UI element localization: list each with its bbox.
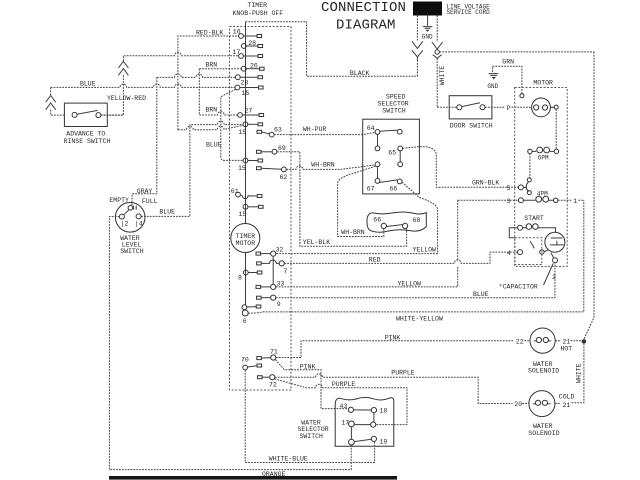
- svg-text:72: 72: [269, 381, 277, 388]
- wire BLUE water level to 15 second: [141, 121, 243, 216]
- hot solenoid L1: [530, 328, 555, 353]
- svg-text:YELLOW: YELLOW: [398, 280, 422, 287]
- timer terminal 28 upper: [241, 44, 246, 49]
- svg-text:43: 43: [340, 403, 348, 410]
- svg-text:GND: GND: [422, 34, 433, 41]
- motor terminal 5: [518, 185, 523, 190]
- wire GRAY riser to water level switch: [132, 77, 157, 205]
- start relay box: [515, 238, 542, 265]
- svg-text:BLUE: BLUE: [80, 80, 96, 87]
- svg-text:2: 2: [552, 274, 556, 281]
- svg-text:68: 68: [413, 217, 421, 224]
- wire WHITE-BLUE 70 to 19: [245, 370, 374, 463]
- winding 4PM: [523, 199, 553, 201]
- svg-text:MOTOR: MOTOR: [236, 240, 256, 247]
- svg-text:BLACK: BLACK: [350, 70, 370, 77]
- wire PURPLE 72 to cold solenoid: [275, 374, 529, 404]
- speed selector switch box: [363, 119, 420, 194]
- timer terminal 16: [239, 34, 244, 39]
- svg-text:BLUE: BLUE: [206, 142, 222, 149]
- timer terminal 27: [238, 113, 243, 118]
- timer terminal 61: [236, 192, 241, 197]
- wire rotor to 6PM winding: [555, 109, 557, 149]
- wire right margin white: [584, 52, 594, 339]
- svg-text:YELLOW: YELLOW: [413, 247, 437, 254]
- switch 66-68 terminals: [381, 223, 386, 228]
- selector terminal 17: [349, 421, 355, 427]
- svg-text:17: 17: [341, 419, 349, 426]
- motor terminal 2: [553, 258, 558, 263]
- svg-text:COLD: COLD: [559, 394, 575, 401]
- selector arm at 5: [526, 182, 528, 192]
- svg-text:WHITE-YELLOW: WHITE-YELLOW: [396, 315, 443, 322]
- wire PINK 71 to hot solenoid: [276, 341, 514, 358]
- svg-text:BLUE: BLUE: [473, 291, 489, 298]
- svg-text:32: 32: [276, 246, 284, 253]
- water level switch S2: [115, 203, 145, 233]
- svg-text:1: 1: [573, 198, 577, 205]
- connector arrows black pin: [412, 41, 423, 48]
- svg-text:SWITCH: SWITCH: [120, 248, 144, 255]
- svg-text:4: 4: [507, 250, 511, 257]
- wire ORANGE from water level down and right: [109, 217, 351, 470]
- svg-text:21: 21: [563, 338, 571, 345]
- svg-text:WHITE: WHITE: [439, 66, 446, 86]
- svg-text:WHITE-BLUE: WHITE-BLUE: [269, 455, 308, 462]
- svg-text:61: 61: [231, 188, 239, 195]
- speed selector row3 terminals: [375, 162, 380, 167]
- svg-text:KNOB-PUSH OFF: KNOB-PUSH OFF: [233, 10, 284, 17]
- wire GRN to motor frame: [493, 66, 522, 94]
- timer terminal 15 first: [235, 85, 240, 90]
- svg-text:27: 27: [245, 108, 253, 115]
- svg-text:64: 64: [367, 125, 375, 132]
- svg-text:RED: RED: [369, 256, 381, 263]
- svg-text:SERVICE CORD: SERVICE CORD: [447, 9, 491, 16]
- winding 4PM tap: [527, 191, 531, 195]
- wire YELLOW 33 to motor 3 riser: [276, 267, 458, 287]
- bottom scan bar: [109, 476, 397, 480]
- winding 6PM: [528, 149, 532, 153]
- wire 3 to yellow riser: [458, 199, 519, 201]
- wire 15 to blue riser diagonal: [221, 89, 243, 160]
- wire to node 1: [558, 199, 584, 201]
- svg-text:28: 28: [241, 79, 249, 86]
- svg-text:71: 71: [270, 348, 278, 355]
- svg-text:GRN: GRN: [502, 58, 514, 65]
- wire WHITE-YELLOW 6 to motor 1: [248, 200, 584, 313]
- connector arrow white pin: [432, 42, 443, 49]
- svg-text:22: 22: [516, 339, 524, 346]
- svg-text:SELECTOR: SELECTOR: [378, 101, 409, 108]
- wire service cord black pin: [416, 16, 418, 42]
- motor terminal 3: [518, 198, 523, 203]
- svg-text:66: 66: [390, 185, 398, 192]
- svg-text:67: 67: [367, 185, 375, 192]
- wire white junction down to cold: [570, 344, 584, 403]
- wire white junction to right margin: [439, 51, 594, 53]
- speed selector terminal 65: [375, 146, 380, 151]
- timer terminal 8: [243, 270, 248, 275]
- svg-text:BRN: BRN: [206, 107, 218, 114]
- svg-text:GRN-BLK: GRN-BLK: [472, 179, 499, 186]
- svg-text:8: 8: [238, 274, 242, 281]
- link 64 to 65 row: [377, 134, 379, 146]
- svg-text:WH-BRN: WH-BRN: [341, 229, 365, 236]
- door switch S3: [449, 96, 492, 119]
- wire white to door switch: [437, 106, 457, 108]
- svg-text:PINK: PINK: [300, 363, 316, 370]
- capacitor C1: [545, 232, 565, 252]
- svg-text:PURPLE: PURPLE: [391, 369, 415, 376]
- svg-text:EMPTY: EMPTY: [109, 197, 129, 204]
- connector arrows yellow-red: [118, 61, 128, 68]
- svg-text:33: 33: [277, 280, 285, 287]
- svg-text:15: 15: [239, 211, 247, 218]
- label 21 HOT: [555, 340, 581, 342]
- svg-text:15: 15: [242, 90, 250, 97]
- svg-text:*CAPACITOR: *CAPACITOR: [499, 283, 538, 290]
- timer terminal 63: [269, 132, 274, 137]
- svg-text:HOT: HOT: [561, 346, 573, 353]
- svg-text:63: 63: [274, 126, 282, 133]
- wire RED-BLK to 16: [178, 36, 239, 130]
- svg-text:20: 20: [514, 401, 522, 408]
- node junction hot: [582, 339, 587, 344]
- svg-text:TIMER: TIMER: [236, 233, 256, 240]
- svg-text:ADVANCE TO: ADVANCE TO: [66, 130, 105, 137]
- speed selector terminals 67 66: [375, 179, 380, 184]
- svg-text:GND: GND: [487, 83, 498, 90]
- water selector switch box: [335, 397, 394, 446]
- svg-text:BLUE: BLUE: [159, 208, 175, 215]
- motor right terminal: [554, 105, 558, 109]
- motor terminal 4: [518, 250, 523, 255]
- svg-text:PURPLE: PURPLE: [332, 381, 356, 388]
- wire 6PM tap down: [529, 154, 531, 178]
- svg-text:|4: |4: [135, 221, 143, 228]
- timer terminal 6 double: [242, 305, 247, 310]
- svg-text:7: 7: [284, 268, 288, 275]
- timer terminal 70: [243, 365, 248, 370]
- ground GND at service cord: [427, 16, 429, 26]
- label COLD 21: [555, 403, 561, 405]
- svg-text:6PM: 6PM: [538, 155, 549, 162]
- wire 69 to YEL-BLK to 68: [277, 152, 407, 247]
- wire BLACK: [246, 22, 418, 76]
- svg-text:RED-BLK: RED-BLK: [196, 29, 223, 36]
- link row3 to 67: [377, 167, 379, 179]
- svg-text:SPEED: SPEED: [386, 94, 406, 101]
- svg-text:DIAGRAM: DIAGRAM: [336, 18, 396, 34]
- service cord plug block: [413, 2, 442, 16]
- start contact arm: [530, 241, 534, 249]
- selector terminal 18: [371, 408, 376, 413]
- timer bus wire: [245, 22, 247, 305]
- timer box: [230, 27, 292, 391]
- svg-text:|2: |2: [121, 221, 129, 228]
- wire PINK 71 to 43: [276, 360, 349, 409]
- wire gray-feed to 28 lower: [157, 74, 236, 77]
- switch 66-68 box: [367, 212, 426, 232]
- wire riser BRN: [198, 69, 200, 115]
- node white junction: [435, 50, 439, 54]
- wire YELLOW 66 to 32: [276, 182, 438, 254]
- svg-text:BRN: BRN: [206, 61, 218, 68]
- wire service cord white pin: [436, 16, 438, 43]
- selector terminal 43: [348, 407, 353, 412]
- wire GRN-BLK 65 to motor 5: [403, 147, 519, 188]
- svg-text:MOTOR: MOTOR: [533, 79, 553, 86]
- svg-text:9: 9: [277, 301, 281, 308]
- svg-text:CONNECTION: CONNECTION: [321, 0, 406, 16]
- wire door switch to motor P: [485, 106, 532, 108]
- svg-text:WHITE: WHITE: [576, 363, 583, 383]
- svg-text:SWITCH: SWITCH: [300, 433, 324, 440]
- selector terminal 19: [371, 436, 376, 441]
- timer motor M1: [231, 224, 260, 253]
- link 65 to row3: [399, 151, 401, 162]
- svg-text:62: 62: [280, 174, 288, 181]
- wire riser RED-BLK bottom to 15 second: [178, 125, 243, 129]
- svg-text:P: P: [507, 105, 511, 112]
- svg-text:START: START: [524, 215, 544, 222]
- svg-text:GRAY: GRAY: [137, 188, 153, 195]
- wire RED 7 to motor 4: [284, 252, 517, 263]
- wire YELLOW-RED to 17: [123, 52, 238, 61]
- timer terminal 33: [271, 284, 276, 289]
- timer terminal 62: [282, 167, 287, 172]
- timer terminal 17: [239, 54, 244, 59]
- link 32 to 33: [272, 256, 274, 284]
- svg-text:TIMER: TIMER: [248, 2, 268, 9]
- svg-text:70: 70: [241, 356, 249, 363]
- svg-text:3: 3: [507, 198, 511, 205]
- svg-text:21: 21: [563, 402, 571, 409]
- svg-text:15: 15: [238, 129, 246, 136]
- motor frame terminal: [520, 94, 524, 98]
- timer terminal 15 fourth: [243, 204, 248, 209]
- wire BLUE 9 to capacitor 2: [276, 263, 555, 298]
- timer terminal 26: [241, 66, 246, 71]
- svg-text:19: 19: [380, 438, 388, 445]
- svg-text:PINK: PINK: [385, 334, 401, 341]
- svg-text:18: 18: [380, 408, 388, 415]
- timer terminal 15 second: [243, 122, 248, 127]
- svg-text:SWITCH: SWITCH: [382, 108, 406, 115]
- advance to rinse switch S1: [64, 103, 107, 126]
- wire PURPLE 72 to 18: [275, 379, 407, 425]
- motor box: [515, 88, 568, 267]
- connector arrows blue: [50, 87, 52, 95]
- svg-text:6: 6: [243, 318, 247, 325]
- svg-text:WH-BRN: WH-BRN: [311, 161, 335, 168]
- svg-text:15: 15: [238, 165, 246, 172]
- timer terminal 28 lower: [235, 75, 240, 80]
- wire start coil to capacitor: [542, 228, 555, 233]
- svg-text:YEL-BLK: YEL-BLK: [303, 239, 330, 246]
- timer terminal 71: [271, 355, 276, 360]
- wire WH-PUR 63 to speed selector: [274, 132, 375, 134]
- wire white down to door switch: [436, 58, 438, 107]
- timer terminal 15 third: [243, 158, 248, 163]
- wire yellow-red lower to advance switch: [101, 75, 124, 115]
- svg-text:RINSE SWITCH: RINSE SWITCH: [64, 138, 111, 145]
- svg-text:WH-PUR: WH-PUR: [303, 126, 327, 133]
- svg-text:SOLENOID: SOLENOID: [528, 368, 559, 375]
- wire BRN to 26: [199, 68, 241, 70]
- wire BRN to 27: [199, 112, 237, 115]
- svg-text:66: 66: [373, 217, 381, 224]
- speed selector terminal 64: [375, 130, 380, 135]
- wire WH-BRN speed selector to 66-68 box: [338, 166, 384, 236]
- svg-text:SOLENOID: SOLENOID: [528, 430, 559, 437]
- svg-text:16: 16: [233, 29, 241, 36]
- timer terminal 72: [270, 375, 275, 380]
- svg-text:17: 17: [233, 49, 241, 56]
- wire BLUE advance switch to 15: [51, 84, 235, 87]
- svg-text:65: 65: [388, 149, 396, 156]
- svg-text:69: 69: [278, 145, 286, 152]
- timer terminal 32: [271, 251, 276, 256]
- svg-text:DOOR SWITCH: DOOR SWITCH: [450, 122, 493, 129]
- wire WH-BRN 62 to speed selector: [286, 165, 375, 170]
- cold solenoid L2: [529, 391, 555, 417]
- svg-text:YELLOW-RED: YELLOW-RED: [107, 95, 146, 102]
- svg-text:FULL: FULL: [142, 198, 158, 205]
- timer terminal 7: [279, 261, 284, 266]
- wire start to relay box: [509, 228, 517, 238]
- motor M2 rotor: [532, 98, 551, 117]
- ground GND at motor: [489, 74, 499, 76]
- label CAPACITOR with pointer: [544, 264, 554, 286]
- timer terminal 69: [272, 149, 277, 154]
- svg-text:5: 5: [507, 185, 511, 192]
- timer terminal 9: [271, 295, 276, 300]
